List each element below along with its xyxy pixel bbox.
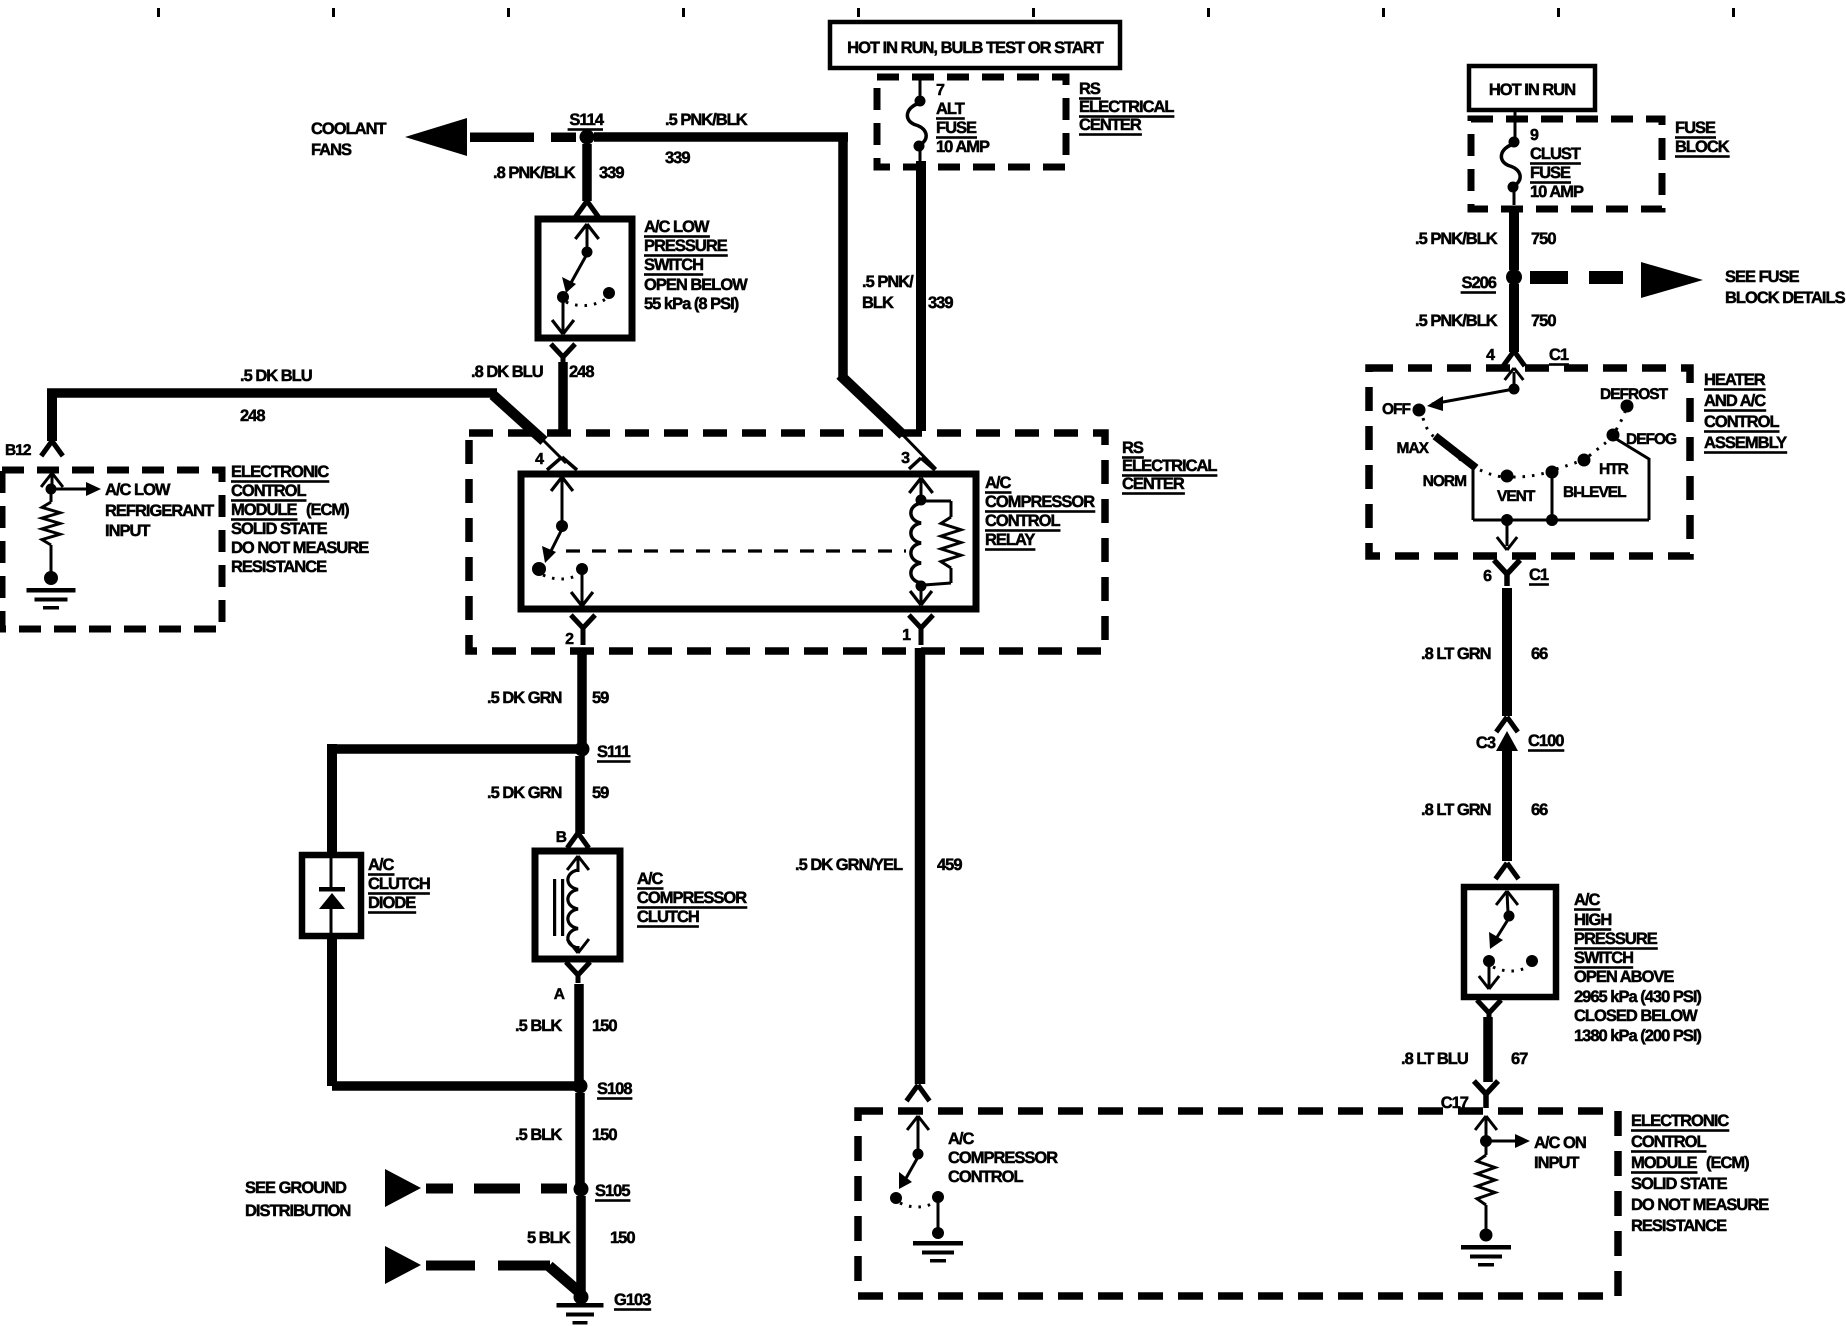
fuse F9 pin number 9 [1530,127,1539,144]
svg-text:A/C LOW: A/C LOW [105,481,171,499]
connector chevron at low pressure switch top [575,201,598,217]
wire .5 PNK/BLK 750 S206 to C1 [1509,284,1519,352]
label A/C CLUTCH DIODE [368,856,430,914]
label VENT [1497,488,1536,505]
label A/C LOW REFRIGERANT INPUT [105,481,214,540]
svg-text:BLK: BLK [862,294,894,312]
wire S108 branch [332,1081,576,1091]
label A/C HIGH PRESSURE SWITCH [1574,891,1701,1045]
dashed arrow ground distribution (lower) [385,1246,578,1291]
value label .5 BLK (upper) [515,1017,562,1035]
mode contact DEFOG [1607,429,1620,442]
svg-text:ELECTRONIC: ELECTRONIC [231,463,329,481]
svg-text:A/C ON: A/C ON [1534,1134,1586,1152]
svg-text:C100: C100 [1528,732,1564,750]
svg-text:CENTER: CENTER [1079,116,1142,134]
svg-text:A/C: A/C [1574,891,1601,909]
A/C low pressure switch box [538,219,632,338]
relay contact right [576,563,588,575]
wire NORM contact down [1472,468,1475,520]
label A/C LOW PRESSURE SWITCH [644,218,748,313]
svg-text:7: 7 [936,82,945,99]
value label .8 PNK/BLK [493,164,576,182]
connector chevron at clutch B [567,833,589,848]
mode contact VENT [1501,470,1514,483]
svg-text:.5 PNK/BLK: .5 PNK/BLK [1415,312,1498,330]
svg-text:150: 150 [592,1126,617,1144]
clutch diode symbol [319,858,345,933]
splice S114 [580,130,595,145]
connector C17 label [1441,1094,1469,1112]
svg-text:SWITCH: SWITCH [644,256,703,274]
label A/C COMPRESSOR CONTROL RELAY [985,474,1095,551]
svg-text:BI-LEVEL: BI-LEVEL [1563,484,1626,501]
label DEFROST [1600,386,1669,403]
svg-text:CONTROL: CONTROL [1631,1133,1706,1151]
svg-text:FANS: FANS [311,141,352,159]
svg-text:AND A/C: AND A/C [1704,392,1766,410]
fuse F7 ALT FUSE 10 AMP symbol [907,79,926,162]
circuit number 66 (upper) [1531,645,1548,663]
svg-text:.5 BLK: .5 BLK [515,1017,562,1035]
svg-text:OPEN BELOW: OPEN BELOW [644,276,748,294]
svg-text:S108: S108 [597,1080,632,1098]
svg-text:SOLID STATE: SOLID STATE [1631,1175,1728,1193]
svg-text:459: 459 [937,856,962,874]
svg-text:RESISTANCE: RESISTANCE [231,558,327,576]
circuit number 459 [937,856,962,874]
svg-text:ALT: ALT [936,100,965,118]
svg-text:10 AMP: 10 AMP [936,138,990,156]
relay coil top lead [909,478,932,497]
circuit number 339 (fuse drop) [928,294,953,312]
svg-text:66: 66 [1531,801,1548,819]
splice S108 label [597,1080,632,1100]
mode switch pivot dot [1509,384,1520,395]
ECM ground dot (right) [1480,1229,1493,1242]
wire 339 corner down [838,133,848,380]
label A/C ON INPUT [1534,1134,1586,1172]
label SEE GROUND DISTRIBUTION [245,1179,350,1220]
value label .5 DK BLU [240,367,312,385]
ECM A/C on input node dot [1480,1135,1492,1147]
ECM (left) dashed box [2,470,222,629]
circuit number 150 (upper) [592,1017,617,1035]
label HEATER AND A/C CONTROL ASSEMBLY [1704,371,1787,454]
wire .5 DK GRN 59 S111 to clutch B [575,756,585,834]
circuit number 150 (ground) [610,1229,635,1247]
high pressure switch contact right [1526,955,1538,967]
svg-text:59: 59 [592,689,609,707]
svg-text:4: 4 [535,451,544,468]
svg-text:ASSEMBLY: ASSEMBLY [1704,434,1787,452]
relay armature pin 4 arrow [551,477,573,522]
svg-text:A/C: A/C [637,870,664,888]
ground symbol (compressor control) [913,1241,963,1263]
wire .5 DK GRN 59 pin 2 to S111 [577,648,587,745]
RS ELECTRICAL CENTER dashed box (relay) [469,433,1105,651]
mode contact OFF [1413,404,1426,417]
compressor control contact left [890,1192,902,1204]
svg-text:.5 PNK/BLK: .5 PNK/BLK [1415,230,1498,248]
svg-text:CLUTCH: CLUTCH [368,875,430,893]
svg-text:5 BLK: 5 BLK [527,1229,571,1247]
svg-text:RELAY: RELAY [985,531,1035,549]
svg-text:(ECM): (ECM) [1706,1154,1749,1172]
mode switch output bus [1473,519,1649,522]
A/C on input arrow [1491,1134,1530,1148]
low pressure switch lower lead [552,302,574,334]
svg-text:59: 59 [592,784,609,802]
svg-text:2965 kPa (430 PSI): 2965 kPa (430 PSI) [1574,988,1701,1006]
circuit number 248 (branch) [240,407,265,425]
svg-text:MODULE: MODULE [231,501,297,519]
relay armature blade [542,529,562,563]
connector C3 label [1476,734,1496,752]
compressor control contact right [932,1191,944,1203]
svg-text:A: A [554,986,565,1003]
high pressure switch pivot dot [1504,911,1515,922]
connector Y relay pin 1 [909,615,933,645]
wire .5 BLK 150 S108 to S105 [575,1093,585,1185]
svg-text:A/C: A/C [948,1130,975,1148]
svg-text:.5 DK GRN: .5 DK GRN [487,689,562,707]
fuse F9 CLUST FUSE 10 AMP symbol [1501,110,1520,205]
circuit number 339 [599,164,624,182]
label ALT FUSE 10 AMP [936,100,990,156]
wire diode to S108 branch [327,936,337,1086]
svg-text:B: B [556,829,567,846]
connector chevron C1 pin 4 [1503,351,1525,380]
wire 339 diagonal to relay pin 3 [840,375,903,435]
value label .8 LT BLU [1401,1050,1468,1068]
ECM (bottom) dashed box [858,1111,1618,1296]
compressor control driver pivot dot [913,1149,924,1160]
label ELECTRONIC CONTROL MODULE (ECM) left [231,463,369,576]
value label .8 DK BLU [471,363,543,381]
ECM ground node dot (left) [44,571,58,585]
svg-text:DO NOT MEASURE: DO NOT MEASURE [1631,1196,1769,1214]
value label .5 PNK/BLK (S114 right) [665,111,748,129]
fuse F7 pin number 7 [936,82,945,99]
svg-text:.8 DK BLU: .8 DK BLU [471,363,543,381]
relay mechanical link (dashed) [566,549,906,552]
svg-text:HOT IN RUN, BULB TEST OR START: HOT IN RUN, BULB TEST OR START [847,39,1104,57]
svg-text:COOLANT: COOLANT [311,120,386,138]
splice S206 [1506,269,1522,285]
value label .5 BLK (lower) [515,1126,562,1144]
svg-text:CLUST: CLUST [1530,145,1581,163]
svg-text:SOLID STATE: SOLID STATE [231,520,328,538]
connector chevron relay pin 4 [547,457,577,470]
mode switch wiper to OFF [1427,389,1514,411]
svg-text:CONTROL: CONTROL [231,482,306,500]
svg-text:OFF: OFF [1382,401,1411,418]
wire .5 PNK/BLK 339 fuse to relay pin 3 (vertical) [916,161,926,431]
connector Y at high pressure switch bottom [1477,1000,1501,1019]
wire .5 DK BLU 248 horizontal [47,388,497,398]
svg-text:67: 67 [1511,1050,1528,1068]
svg-text:CONTROL: CONTROL [1704,413,1779,431]
label A/C COMPRESSOR CONTROL [948,1130,1058,1186]
high pressure switch pin arrow [1496,891,1518,913]
circuit number 150 (lower) [592,1126,617,1144]
ECM input node dot [46,484,57,495]
svg-text:PRESSURE: PRESSURE [644,237,728,255]
label CLUST FUSE 10 AMP [1530,145,1584,201]
svg-text:RS: RS [1122,439,1144,457]
relay coil bottom junction dot [916,581,927,592]
connector C1 label (bottom) [1529,566,1549,586]
svg-text:A/C LOW: A/C LOW [644,218,710,236]
label MAX [1397,440,1430,457]
label NORM [1423,473,1466,490]
svg-text:S105: S105 [595,1182,630,1200]
splice S108 [573,1079,588,1094]
wire .8 LT BLU 67 switch to C17 [1483,1017,1493,1082]
A/C high pressure switch box [1464,887,1556,997]
relay contact travel arc (dotted) [543,575,578,579]
low pressure switch contact right [603,287,615,299]
high pressure switch blade [1489,918,1509,949]
relay coil winding (left) [911,503,921,583]
clutch plates [553,879,564,936]
svg-text:.5 DK GRN/YEL: .5 DK GRN/YEL [795,856,903,874]
A/C compressor clutch box [535,851,620,959]
dashed arrow to coolant fans [405,118,576,156]
svg-text:CLUTCH: CLUTCH [637,908,699,926]
svg-text:(ECM): (ECM) [306,501,349,519]
svg-text:FUSE: FUSE [936,119,977,137]
bus junction dot (BI-LEVEL) [1546,514,1558,526]
svg-text:OPEN ABOVE: OPEN ABOVE [1574,968,1674,986]
connector C100 symbol [1496,717,1518,751]
mode contact DEFROST [1621,400,1634,413]
mode switch output lead [1497,523,1517,550]
label RS ELECTRICAL CENTER (top) [1079,80,1174,136]
svg-text:DIODE: DIODE [368,894,416,912]
dashed arrow to fuse block details [1530,262,1703,298]
relay coil bottom lead [910,589,932,605]
svg-text:B12: B12 [5,442,31,459]
svg-text:ELECTRONIC: ELECTRONIC [1631,1112,1729,1130]
svg-text:MAX: MAX [1397,440,1430,457]
connector C1 label (top) [1549,346,1569,366]
value label .8 LT GRN (upper) [1421,645,1491,663]
svg-text:55 kPa (8 PSI): 55 kPa (8 PSI) [644,295,739,313]
connector Y at clutch A [566,962,590,983]
wire S111 branch to diode [327,744,578,855]
connector Y at low pressure switch bottom [551,344,575,364]
dashed arrow ground distribution (upper) [385,1169,567,1207]
value label 5 BLK [527,1229,571,1247]
FUSE BLOCK dashed box [1471,119,1662,209]
label HTR [1599,461,1629,478]
value label .5 PNK/BLK (lower right) [1415,312,1498,330]
svg-text:HTR: HTR [1599,461,1629,478]
clutch pin B arrow [567,856,589,872]
svg-text:ELECTRICAL: ELECTRICAL [1122,457,1217,475]
clutch terminal B label [556,829,567,846]
splice S111 label [597,743,631,763]
connector chevron at B12 [41,441,63,456]
svg-text:BLOCK: BLOCK [1675,138,1730,156]
connector chevron at high pressure switch [1495,863,1518,879]
wire 5 BLK 150 S105 to G103 [576,1196,586,1292]
ground symbol G103 [557,1303,604,1325]
high pressure switch contact left [1483,955,1495,967]
svg-text:HEATER: HEATER [1704,371,1766,389]
svg-text:CONTROL: CONTROL [948,1168,1023,1186]
svg-text:750: 750 [1531,312,1556,330]
relay pin 4 label [535,451,544,468]
connector C1 pin 4 label [1486,347,1495,364]
clutch pin A arrow [567,939,589,953]
value label .5 PNK/BLK (upper right) [1415,230,1498,248]
ground G103 label [614,1291,651,1311]
svg-text:.8 LT BLU: .8 LT BLU [1401,1050,1468,1068]
wire .8 LT GRN 66 C1 to C100 [1502,588,1512,716]
svg-text:750: 750 [1531,230,1556,248]
svg-text:.5 DK BLU: .5 DK BLU [240,367,312,385]
svg-text:A/C: A/C [368,856,395,874]
compressor control driver blade [899,1157,918,1189]
label DEFOG [1626,431,1677,448]
ground G103 dot [574,1290,589,1305]
svg-text:CONTROL: CONTROL [985,512,1060,530]
svg-text:.8 LT GRN: .8 LT GRN [1421,645,1491,663]
circuit number 59 (lower) [592,784,609,802]
svg-text:339: 339 [928,294,953,312]
frame tick marks [157,8,1735,17]
svg-text:2: 2 [565,631,574,648]
A/C compressor control relay box [521,474,976,609]
circuit number 248 [569,363,594,381]
svg-text:S206: S206 [1461,274,1496,292]
svg-text:PRESSURE: PRESSURE [1574,930,1658,948]
splice S206 label [1461,274,1497,294]
wire .8 LT GRN 66 C100 to high pressure switch [1502,751,1512,861]
ECM B12 pin arrow [41,473,63,487]
clutch terminal A label [554,986,565,1003]
svg-text:9: 9 [1530,127,1539,144]
wire DEFOG to bus [1613,437,1649,520]
clutch coil winding [568,870,578,948]
svg-text:NORM: NORM [1423,473,1466,490]
circuit number 66 (lower) [1531,801,1548,819]
label COOLANT FANS [311,120,386,159]
svg-text:C3: C3 [1476,734,1496,752]
svg-text:DO NOT MEASURE: DO NOT MEASURE [231,539,369,557]
svg-text:VENT: VENT [1497,488,1536,505]
svg-text:G103: G103 [614,1291,651,1309]
low pressure switch travel arc (dotted) [566,299,606,306]
svg-text:.5 PNK/BLK: .5 PNK/BLK [665,111,748,129]
compressor control travel arc (dotted) [900,1203,934,1207]
terminal B12 label [5,442,31,459]
svg-text:FUSE: FUSE [1675,119,1716,137]
label FUSE BLOCK [1675,119,1730,158]
svg-text:SWITCH: SWITCH [1574,949,1633,967]
svg-text:.5 BLK: .5 BLK [515,1126,562,1144]
heater and A/C control assembly dashed box [1369,368,1690,556]
svg-text:6: 6 [1483,568,1492,585]
value label .5 DK GRN/YEL [795,856,903,874]
wire .5 DK GRN/YEL 459 relay pin 1 down [915,648,926,1084]
svg-text:4: 4 [1486,347,1495,364]
connector Y C17 [1474,1081,1498,1108]
label RS ELECTRICAL CENTER (relay) [1122,439,1217,495]
wire B12 drop [47,389,57,441]
svg-text:HIGH: HIGH [1574,911,1611,929]
svg-text:248: 248 [569,363,594,381]
mode blade MAX-NORM (thick) [1435,436,1476,468]
splice S114 label [568,111,605,131]
value label .5 PNK/BLK (fuse drop) [862,273,914,312]
svg-text:150: 150 [592,1017,617,1035]
high pressure switch lower lead [1479,966,1499,989]
svg-text:COMPRESSOR: COMPRESSOR [637,889,747,907]
low pressure switch pivot dot [582,247,593,258]
svg-text:A/C: A/C [985,474,1012,492]
svg-text:.8 LT GRN: .8 LT GRN [1421,801,1491,819]
svg-text:INPUT: INPUT [105,522,150,540]
label SEE FUSE BLOCK DETAILS [1725,268,1846,307]
svg-text:.5 PNK/: .5 PNK/ [862,273,914,291]
circuit number 59 (upper) [592,689,609,707]
svg-text:BLOCK DETAILS: BLOCK DETAILS [1725,289,1846,307]
svg-text:REFRIGERANT: REFRIGERANT [105,502,214,520]
svg-text:SEE GROUND: SEE GROUND [245,1179,347,1197]
mode switch feed [1513,372,1516,386]
label A/C COMPRESSOR CLUTCH [637,870,747,928]
relay pin 3 label [901,450,910,467]
svg-text:DISTRIBUTION: DISTRIBUTION [245,1202,350,1220]
ECM C17 pin arrow [1475,1116,1497,1139]
power feed box HOT IN RUN [1469,66,1595,110]
connector C100 label [1528,732,1564,752]
relay coil top junction dot [916,495,927,506]
svg-text:.8 PNK/BLK: .8 PNK/BLK [493,164,576,182]
compressor control ground dot [932,1227,944,1239]
splice S105 [574,1182,589,1197]
A/C clutch diode box [302,855,361,936]
svg-text:CLOSED BELOW: CLOSED BELOW [1574,1007,1698,1025]
svg-text:FUSE: FUSE [1530,164,1571,182]
wire .8 PNK/BLK 339 S114 down [582,144,592,201]
value label .8 LT GRN (lower) [1421,801,1491,819]
value label .5 DK GRN (lower) [487,784,562,802]
wire BI-LEVEL contact down [1551,475,1554,520]
svg-text:150: 150 [610,1229,635,1247]
svg-text:CENTER: CENTER [1122,475,1185,493]
relay parallel resistor (right) [924,501,961,585]
connector chevron relay pin 3 [909,458,935,470]
svg-text:10 AMP: 10 AMP [1530,183,1584,201]
ground symbol (ECM left) [27,588,76,610]
relay contact left (pin 2 side) [532,562,546,576]
svg-text:C1: C1 [1529,566,1549,584]
svg-text:ELECTRICAL: ELECTRICAL [1079,98,1174,116]
connector Y relay pin 2 [571,615,595,645]
splice S105 label [595,1182,630,1202]
low pressure switch contact left [557,291,569,303]
RS ELECTRICAL CENTER dashed box (fuse) [877,77,1066,167]
ECM compressor control pin arrow [907,1116,929,1151]
wire .5 PNK/BLK 339 S114 to corner [594,132,848,142]
svg-text:RESISTANCE: RESISTANCE [1631,1217,1727,1235]
bus junction dot (VENT) [1501,514,1513,526]
